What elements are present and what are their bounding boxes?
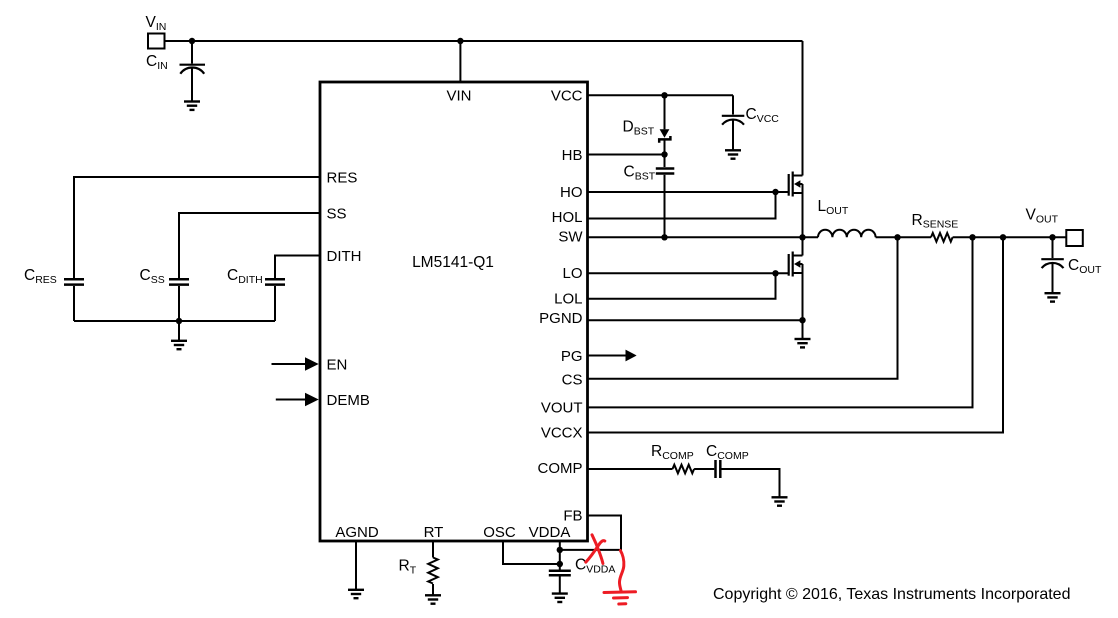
wire DITH [275, 256, 320, 279]
svg-text:VOUT: VOUT [541, 400, 583, 417]
svg-text:RCOMP: RCOMP [651, 443, 694, 462]
node SW-Q1 junction [799, 234, 805, 240]
capacitor CDITH [265, 279, 285, 321]
ground (CCOMP) [772, 497, 788, 505]
node rail junction [176, 318, 182, 324]
node CBST-SW junction [661, 234, 667, 240]
svg-text:VCCX: VCCX [541, 425, 583, 442]
node VIN pin junction [457, 38, 463, 44]
capacitor CSS [169, 279, 189, 321]
capacitor CIN [180, 65, 206, 102]
red deletion mark X stroke 1 [592, 535, 603, 564]
capacitor CCOMP [716, 460, 721, 478]
wire HO [588, 191, 790, 193]
wire VCC [588, 94, 734, 96]
svg-text:CIN: CIN [146, 53, 168, 72]
node VOUT sense junction [969, 234, 975, 240]
svg-text:HB: HB [562, 147, 583, 164]
wire VIN rail to Q1 drain [802, 41, 804, 176]
node PGND junction [799, 317, 805, 323]
ground (COUT) [1045, 293, 1061, 301]
wire COMP [588, 468, 673, 470]
transistor Q2 (low-side NMOS) [789, 237, 803, 320]
svg-text:LO: LO [562, 265, 582, 282]
node CS sense junction [894, 234, 900, 240]
svg-text:SS: SS [327, 205, 347, 222]
svg-text:HO: HO [560, 184, 583, 201]
wire LOUT to RSENSE [876, 236, 931, 238]
svg-text:CRES: CRES [24, 267, 57, 286]
svg-text:VIN: VIN [446, 88, 471, 105]
svg-text:EN: EN [327, 356, 348, 373]
svg-text:CBST: CBST [624, 164, 656, 183]
ground (CVCC) [725, 150, 741, 158]
wire SW [588, 236, 819, 238]
port VOUT (output terminal) [1066, 230, 1083, 246]
ground (left caps) [171, 341, 187, 349]
port VIN (input terminal) [148, 34, 165, 49]
transistor Q1 (high-side NMOS) [789, 172, 803, 238]
svg-text:VCC: VCC [551, 88, 583, 105]
wire RT stem [432, 541, 434, 558]
ground (CVDDA) [552, 594, 568, 602]
wire CVCC branch [732, 95, 734, 114]
capacitor COUT [1041, 259, 1064, 293]
node LO-LOL junction [772, 270, 778, 276]
svg-text:PG: PG [561, 348, 583, 365]
resistor RSENSE [931, 233, 953, 242]
inductor LOUT [818, 230, 876, 238]
wire SS [179, 213, 320, 278]
svg-text:COMP: COMP [538, 460, 583, 477]
node HB junction [661, 151, 667, 157]
node COUT junction [1049, 234, 1055, 240]
svg-text:FB: FB [563, 508, 582, 525]
wire VDDA stem [559, 541, 561, 570]
wire ground rail (left caps) [74, 320, 275, 322]
red ground (deleted) [604, 592, 636, 604]
svg-text:CVDDA: CVDDA [575, 557, 615, 576]
wire CS [588, 237, 898, 378]
svg-text:CSS: CSS [140, 267, 165, 286]
svg-text:DBST: DBST [623, 119, 655, 138]
svg-text:DITH: DITH [327, 248, 362, 265]
wire HB [588, 154, 665, 156]
svg-text:SW: SW [558, 229, 583, 246]
capacitor CRES [64, 279, 84, 321]
svg-text:COUT: COUT [1068, 257, 1102, 276]
ground (CIN) [184, 102, 200, 110]
red deleted wire (squiggle) [619, 551, 623, 593]
ground (RT) [425, 595, 441, 603]
svg-text:CCOMP: CCOMP [706, 443, 749, 462]
wire EN arrow [272, 363, 306, 365]
svg-text:Copyright © 2016, Texas Instru: Copyright © 2016, Texas Instruments Inco… [713, 586, 1070, 603]
svg-text:CVCC: CVCC [746, 106, 780, 125]
wire RES [74, 177, 320, 278]
wire OSC [503, 541, 560, 564]
diode DBST [659, 95, 670, 167]
wire HOL [588, 192, 776, 219]
node OSC-VDDA junction [557, 561, 563, 567]
node HO-HOL junction [772, 189, 778, 195]
arrowhead PG [626, 350, 637, 362]
wire VIN pin drop [459, 41, 461, 82]
node VCCX junction [1000, 234, 1006, 240]
svg-text:DEMB: DEMB [327, 392, 370, 409]
capacitor CVDDA [549, 571, 571, 594]
op-amp U1 LM5141-Q1 IC body [320, 82, 588, 541]
svg-text:LOUT: LOUT [818, 198, 849, 217]
svg-text:RT: RT [399, 558, 417, 577]
wire CIN branch [191, 41, 193, 64]
wire VIN top rail [165, 40, 803, 42]
arrowhead DEMB [305, 393, 319, 407]
wire ground stem [178, 321, 180, 341]
wire COUT branch [1052, 237, 1054, 258]
wire DEMB arrow [276, 399, 306, 401]
wire CCOMP to ground [722, 469, 780, 497]
wire PGND [588, 319, 803, 321]
wire LOL [588, 273, 776, 298]
capacitor CVCC [722, 116, 745, 151]
svg-text:HOL: HOL [552, 209, 583, 226]
svg-text:CDITH: CDITH [227, 267, 263, 286]
wire PG arrow [588, 355, 627, 357]
wire AGND stem [355, 541, 357, 590]
wire RSENSE to VOUT port [953, 236, 1067, 238]
svg-text:RT: RT [424, 524, 444, 541]
node CIN junction [189, 38, 195, 44]
svg-text:VIN: VIN [146, 14, 167, 33]
node FB-VDDA junction [557, 547, 563, 553]
svg-text:LM5141-Q1: LM5141-Q1 [412, 254, 494, 271]
wire VCCX [588, 237, 1004, 432]
node DBST anode junction [661, 92, 667, 98]
ground (AGND) [348, 590, 364, 598]
capacitor CBST [656, 169, 675, 238]
resistor RCOMP [673, 465, 695, 474]
svg-text:VDDA: VDDA [529, 524, 571, 541]
wire Q2 source ground stem [802, 320, 804, 339]
svg-text:OSC: OSC [483, 524, 516, 541]
resistor RT [428, 558, 438, 584]
svg-text:AGND: AGND [335, 524, 379, 541]
svg-text:PGND: PGND [539, 310, 583, 327]
wire RT to ground [432, 584, 434, 595]
svg-text:RSENSE: RSENSE [912, 212, 959, 231]
red deletion mark X stroke 2 [586, 541, 605, 563]
svg-text:CS: CS [562, 371, 583, 388]
ground (Q2 source) [795, 339, 811, 347]
wire VOUT sense [588, 237, 973, 407]
wire FB [560, 516, 621, 550]
wire RCOMP to CCOMP [694, 468, 714, 470]
wire LO [588, 272, 790, 274]
svg-text:LOL: LOL [554, 291, 582, 308]
svg-text:RES: RES [327, 169, 358, 186]
arrowhead EN [305, 357, 319, 371]
svg-text:VOUT: VOUT [1026, 207, 1059, 226]
